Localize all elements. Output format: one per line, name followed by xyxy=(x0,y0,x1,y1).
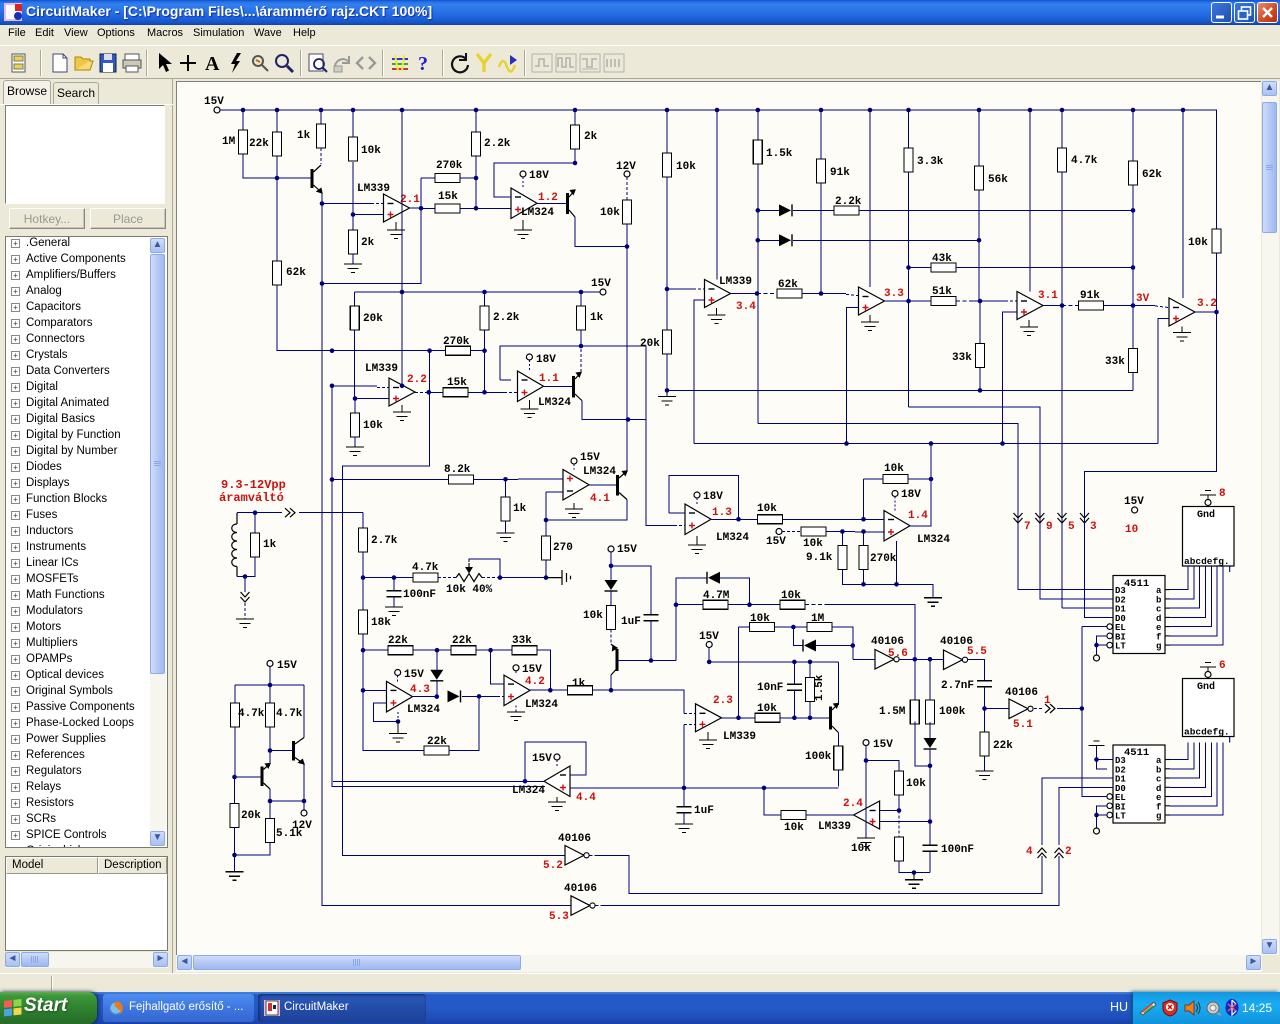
svg-text:62k: 62k xyxy=(778,279,798,291)
wire xyxy=(802,293,821,295)
inverter U5.6 40106 xyxy=(875,650,894,670)
capacitor 1uF 2 xyxy=(677,807,692,813)
pin EL bubble xyxy=(1107,624,1113,630)
svg-text:4.7k: 4.7k xyxy=(276,708,303,720)
wire 2.2 inv xyxy=(332,385,377,387)
wire fb to 2.3 out xyxy=(738,627,740,718)
wire xyxy=(574,110,576,125)
wire to 4.7M node xyxy=(675,605,677,661)
node 10nF bottom xyxy=(792,716,797,721)
pin LT bubble xyxy=(1107,642,1113,648)
svg-text:22k: 22k xyxy=(452,635,472,647)
wire seg d 2 xyxy=(1170,743,1205,788)
wire to 1.3 + xyxy=(646,420,674,526)
svg-text:LM339: LM339 xyxy=(818,821,851,833)
svg-text:?: ? xyxy=(418,53,428,75)
svg-text:15V: 15V xyxy=(873,739,893,751)
transistor Q7 xyxy=(292,741,295,761)
node 1.5k bottom xyxy=(808,716,813,721)
svg-text:LM339: LM339 xyxy=(723,731,756,743)
node cs gnd xyxy=(232,853,237,858)
wire 3.4 out xyxy=(731,293,758,295)
terminal 18V 1.4 xyxy=(892,491,898,497)
resistor 91k xyxy=(817,159,826,183)
svg-text:10k: 10k xyxy=(803,538,823,550)
svg-text:4.3: 4.3 xyxy=(410,684,430,696)
wire xyxy=(684,713,696,715)
wire xyxy=(684,723,696,725)
wire base node xyxy=(243,154,312,178)
wire D2 line xyxy=(909,407,1114,599)
resistor 270k b xyxy=(859,546,868,570)
node osc b xyxy=(928,657,933,662)
svg-text:10k: 10k xyxy=(906,778,926,790)
ground 4.2 xyxy=(507,712,525,721)
collector Q2 xyxy=(569,190,575,197)
wire xyxy=(462,695,479,697)
wire seg f 1 xyxy=(1170,566,1217,636)
svg-text:Gnd: Gnd xyxy=(1197,509,1215,521)
wire xyxy=(497,695,504,697)
wire xyxy=(320,110,322,124)
wire 5.3 out xyxy=(602,856,1059,906)
resistor 2.2k d xyxy=(834,206,859,215)
wire rail to 2.2 inv xyxy=(401,110,403,386)
node 2.2 inv xyxy=(330,384,335,389)
wire xyxy=(708,648,710,662)
resistor 62k xyxy=(273,261,282,285)
resistor 8.2k xyxy=(449,475,474,484)
wire xyxy=(484,292,486,306)
svg-text:10k: 10k xyxy=(757,503,777,515)
op-amp U1.1 LM324 xyxy=(518,371,544,402)
svg-text:4.7M: 4.7M xyxy=(703,590,730,602)
svg-text:LM339: LM339 xyxy=(357,183,390,195)
wire 1.2 feedback xyxy=(494,163,575,197)
node rail xyxy=(474,108,479,113)
wire 1.4 power down xyxy=(896,541,898,584)
diode D7 xyxy=(924,738,937,748)
wire xyxy=(863,570,865,585)
wire 4.3 + loop xyxy=(373,703,398,722)
wire xyxy=(809,662,811,678)
svg-text:1.4: 1.4 xyxy=(908,510,928,522)
wire xyxy=(596,905,603,907)
wire xyxy=(972,300,1005,302)
svg-text:4.1: 4.1 xyxy=(590,493,610,505)
wire 4.4 feedback xyxy=(525,742,586,781)
node 56k bottom xyxy=(977,238,982,243)
emitter Q8 xyxy=(264,783,271,789)
svg-text:abcdefg.: abcdefg. xyxy=(1184,556,1230,567)
wire Q2 emitter xyxy=(575,217,627,247)
wire xyxy=(479,695,497,697)
wire bus 4.4+ xyxy=(570,787,838,789)
svg-text:10k: 10k xyxy=(583,610,603,622)
wire D8 left xyxy=(793,627,803,646)
wire seg e 1 xyxy=(1170,566,1211,627)
resistor 1.5k rc xyxy=(806,678,815,702)
svg-text:3.3: 3.3 xyxy=(884,288,904,300)
wire xyxy=(757,110,759,140)
wire xyxy=(626,177,628,200)
wire 62k chain xyxy=(1132,185,1134,306)
wire xyxy=(505,479,507,497)
collector Q5 xyxy=(611,669,617,675)
op-amp U1.3 LM324 xyxy=(685,504,711,535)
wire Q6 emitter xyxy=(837,733,839,747)
wire xyxy=(979,368,981,391)
wire D4 top xyxy=(436,650,438,670)
wire 1.3 inv xyxy=(669,512,685,514)
wire xyxy=(693,288,705,290)
svg-text:6: 6 xyxy=(1219,660,1226,672)
wire 2.1 + input xyxy=(353,214,384,216)
wire 20k down xyxy=(666,354,668,390)
node 43k left xyxy=(906,265,911,270)
resistor 33k a xyxy=(976,344,985,368)
svg-text:10k: 10k xyxy=(676,161,696,173)
op-amp U3.4 LM339 xyxy=(705,280,731,308)
wire xyxy=(460,177,476,179)
node 4.2 out xyxy=(548,688,553,693)
wire xyxy=(573,464,575,470)
svg-text:22k: 22k xyxy=(388,635,408,647)
wire xyxy=(1034,708,1044,710)
node 43k right xyxy=(1131,265,1136,270)
ground 4.1 xyxy=(565,503,583,518)
wire seg d 1 xyxy=(1170,566,1205,617)
node 3.1 out xyxy=(1060,303,1065,308)
resistor 22k xyxy=(388,646,413,655)
resistor 10k fb xyxy=(883,475,908,484)
svg-text:3: 3 xyxy=(1090,521,1097,533)
resistor 1M fb xyxy=(807,623,832,632)
node D4 top xyxy=(435,648,440,653)
node 15k right xyxy=(482,390,487,395)
svg-text:2.1: 2.1 xyxy=(400,194,420,206)
wire xyxy=(805,604,828,606)
wire bus x332 to 4.4 xyxy=(332,480,545,787)
svg-text:LM324: LM324 xyxy=(917,534,950,546)
svg-text:43k: 43k xyxy=(932,253,952,265)
wire to 5.6 in xyxy=(852,646,854,660)
svg-text:2.2k: 2.2k xyxy=(493,312,520,324)
resistor 15k xyxy=(435,204,460,213)
resistor 1.5M xyxy=(910,700,919,724)
svg-text:9: 9 xyxy=(1046,521,1053,533)
node 10nF top xyxy=(792,660,797,665)
terminal 15V 4.1 xyxy=(571,458,577,464)
wire 4.3 power xyxy=(397,712,399,722)
svg-text:1.5M: 1.5M xyxy=(879,706,906,718)
svg-text:1.2: 1.2 xyxy=(538,192,558,204)
wire xyxy=(421,207,435,209)
wire xyxy=(909,300,932,302)
resistor 20k 3.4 xyxy=(663,330,672,354)
wire 1k bottom xyxy=(237,557,255,577)
wire xyxy=(1104,305,1133,307)
wire emitter to bus xyxy=(321,193,323,204)
wire 22k to diode node xyxy=(449,696,479,750)
svg-text:40106: 40106 xyxy=(1005,687,1038,699)
svg-text:1uF: 1uF xyxy=(694,805,714,817)
svg-text:4.7k: 4.7k xyxy=(412,562,439,574)
emitter Q5 xyxy=(611,644,617,651)
wire xyxy=(430,350,446,352)
node C2 xyxy=(929,441,934,446)
wire xyxy=(234,777,236,804)
wire 1.5M bottom xyxy=(915,722,930,766)
capacitor 2.7nF xyxy=(977,681,992,687)
terminal xyxy=(214,107,220,113)
wire 3.4 inv input xyxy=(667,288,693,290)
wire xyxy=(234,727,236,777)
wire to 2.4 out xyxy=(806,814,854,816)
wire Q8 collector xyxy=(269,751,271,764)
wire xyxy=(864,478,884,480)
wire 3.3 out xyxy=(885,300,909,302)
terminal 15V 2.4 xyxy=(863,740,869,746)
wire xyxy=(332,479,449,481)
wire xyxy=(758,209,779,211)
wire fb to bus xyxy=(581,346,646,420)
op-amp U4.2 LM324 xyxy=(504,675,530,706)
resistor 1k out xyxy=(568,686,593,695)
wire 91k down xyxy=(820,183,822,294)
svg-text:3.3k: 3.3k xyxy=(917,156,944,168)
node fb collector xyxy=(579,344,584,349)
node 3V xyxy=(1131,303,1136,308)
svg-text:4.7k: 4.7k xyxy=(1071,155,1098,167)
wire D1 row xyxy=(859,209,1133,211)
wire xyxy=(242,110,244,130)
node rail2 xyxy=(482,290,487,295)
wire xyxy=(362,634,364,650)
node 2.4 in xyxy=(762,786,767,791)
resistor 62k b xyxy=(777,289,802,298)
wire BI1 xyxy=(1097,636,1108,645)
wire 2.3 + to bus xyxy=(683,724,685,786)
svg-text:22k: 22k xyxy=(249,138,269,150)
wire seg g 1 xyxy=(1170,566,1223,645)
inverter U5.5 40106 xyxy=(944,650,963,670)
wire to 10k a xyxy=(866,761,899,772)
wire 62k to 270k line xyxy=(277,285,430,351)
wire line A xyxy=(667,389,1133,391)
wire xyxy=(898,811,900,838)
wire 5.1 in xyxy=(985,708,1010,710)
transistor Q6 xyxy=(829,707,832,730)
resistor 3.3k xyxy=(904,148,913,172)
node 15k right xyxy=(474,206,479,211)
wire 5.6 in xyxy=(853,658,875,660)
node 1.5k top xyxy=(808,660,813,665)
svg-text:2: 2 xyxy=(1065,846,1072,858)
wire xyxy=(780,717,831,719)
svg-text:15k: 15k xyxy=(447,377,467,389)
wire xyxy=(1057,708,1082,710)
node 2k bottom xyxy=(573,161,578,166)
svg-text:15V: 15V xyxy=(591,278,611,290)
wire xyxy=(1133,305,1155,307)
resistor 270k xyxy=(435,174,460,183)
node rail xyxy=(241,108,246,113)
node Q7 base xyxy=(268,748,273,753)
svg-text:g: g xyxy=(1156,642,1161,652)
wire xyxy=(352,110,354,137)
node line A xyxy=(978,388,983,393)
collector Q1 xyxy=(314,165,322,172)
resistor 270 xyxy=(542,536,551,560)
resistor 15k xyxy=(443,388,468,397)
wire EL1 xyxy=(1082,626,1107,628)
node D7 xyxy=(928,764,933,769)
svg-text:40106: 40106 xyxy=(871,636,904,648)
wire seg e 2 xyxy=(1170,743,1211,797)
resistor 10k b xyxy=(895,837,904,861)
svg-text:20k: 20k xyxy=(640,338,660,350)
svg-text:5.1k: 5.1k xyxy=(276,828,303,840)
wire xyxy=(354,437,356,447)
svg-text:4.4: 4.4 xyxy=(576,792,596,804)
wire seg c 1 xyxy=(1170,566,1200,608)
terminal 15V q xyxy=(608,546,614,552)
resistor 18k xyxy=(359,610,368,634)
transistor Q2 xyxy=(566,193,569,214)
node rail xyxy=(351,108,356,113)
wire 3.1 + down xyxy=(1003,312,1018,444)
node rail xyxy=(868,108,873,113)
connector in xyxy=(285,508,295,517)
wire BI2 xyxy=(1097,806,1108,815)
svg-text:2k: 2k xyxy=(584,131,598,143)
wire xyxy=(471,350,485,352)
ground cs xyxy=(226,872,244,881)
wire xyxy=(676,604,703,606)
svg-text:1k: 1k xyxy=(513,503,527,515)
wire 3.1 power xyxy=(1029,110,1031,292)
resistor 22k fb xyxy=(424,746,449,755)
svg-text:10k: 10k xyxy=(851,843,871,855)
ground 2.1 xyxy=(387,222,405,239)
pin EL 2 bubble xyxy=(1107,794,1113,800)
svg-text:100nF: 100nF xyxy=(403,589,436,601)
wire xyxy=(574,149,576,163)
wire xyxy=(269,667,271,686)
resistor 10k 12V xyxy=(623,200,632,224)
wire xyxy=(984,756,986,771)
potentiometer 10k 40% xyxy=(456,574,482,582)
svg-text:LM324: LM324 xyxy=(538,397,571,409)
node bus332 top xyxy=(330,348,335,353)
wire 2.4 + input xyxy=(880,821,930,823)
wire xyxy=(460,207,511,209)
wire bus x332a xyxy=(331,386,333,480)
wire xyxy=(1132,110,1134,161)
wire xyxy=(863,532,865,546)
node 10k fb xyxy=(929,477,934,482)
node rail xyxy=(1060,108,1065,113)
wire 2.4 inv input xyxy=(880,810,899,812)
wire 1.2 out to base xyxy=(536,203,566,205)
svg-text:5.3: 5.3 xyxy=(549,911,569,923)
resistor 33k b xyxy=(1129,349,1138,373)
transistor Q5 PNP xyxy=(616,649,619,671)
wire line C xyxy=(694,443,1158,445)
ground 2.4 xyxy=(857,838,875,847)
terminal 15V 4.2 xyxy=(513,665,519,671)
svg-text:8.2k: 8.2k xyxy=(444,464,471,476)
wire fb vert xyxy=(863,479,865,519)
node 91k bottom xyxy=(819,291,824,296)
ground 2.2 xyxy=(393,405,411,421)
node 62k bottom xyxy=(1131,208,1136,213)
wire 1k to 2.3 xyxy=(593,690,685,713)
resistor 22k xyxy=(451,646,476,655)
transistor Q3 xyxy=(572,376,575,398)
svg-text:1: 1 xyxy=(1044,695,1051,707)
svg-text:270k: 270k xyxy=(443,336,470,348)
wire 10k to 2k xyxy=(352,162,354,230)
earth ground rotated xyxy=(546,570,571,585)
wire seg c 2 xyxy=(1170,743,1200,779)
wire xyxy=(909,267,932,269)
wire Q3 collector xyxy=(580,346,582,372)
node 1M left xyxy=(791,625,796,630)
wire line B xyxy=(709,661,838,663)
resistor 10k p xyxy=(1212,229,1221,253)
wire 10k-20k xyxy=(666,177,668,330)
emitter Q7 xyxy=(295,758,304,765)
wire xyxy=(978,110,980,166)
resistor 22k osc xyxy=(980,732,989,756)
resistor 20k xyxy=(350,306,359,330)
node 3.4 inv xyxy=(665,287,670,292)
toolbar xyxy=(0,45,1280,79)
node 2.1 + xyxy=(351,212,356,217)
node rail xyxy=(665,108,670,113)
display Gnd box 2 xyxy=(1183,679,1235,737)
op-amp U4.1 LM324 xyxy=(563,470,589,501)
wire xyxy=(696,498,698,504)
wire xyxy=(956,300,972,302)
resistor 2.7k xyxy=(359,528,368,552)
wire Q3 emitter xyxy=(582,401,646,420)
wire xyxy=(610,552,612,580)
svg-text:LM324: LM324 xyxy=(521,207,554,219)
capacitor 10nF xyxy=(787,684,802,690)
svg-text:1M: 1M xyxy=(811,613,825,625)
resistor 10k 1.3 xyxy=(758,515,783,524)
node D3 gnd xyxy=(1094,757,1099,762)
connector 1 xyxy=(1045,704,1055,713)
emitter Q1 xyxy=(314,185,323,193)
wire xyxy=(515,671,517,675)
wire bus x322 to 5.3 xyxy=(322,284,571,906)
wire Q5 collector xyxy=(610,675,612,690)
svg-text:1k: 1k xyxy=(590,312,604,324)
resistor 9.1k xyxy=(838,546,847,570)
wire xyxy=(898,795,900,811)
svg-text:1.5k: 1.5k xyxy=(766,148,793,160)
wire xyxy=(528,360,530,371)
wire xyxy=(476,649,512,651)
svg-text:18V: 18V xyxy=(529,170,549,182)
wire emitters xyxy=(270,800,304,802)
svg-text:7: 7 xyxy=(1024,521,1031,533)
wire xyxy=(758,239,779,241)
